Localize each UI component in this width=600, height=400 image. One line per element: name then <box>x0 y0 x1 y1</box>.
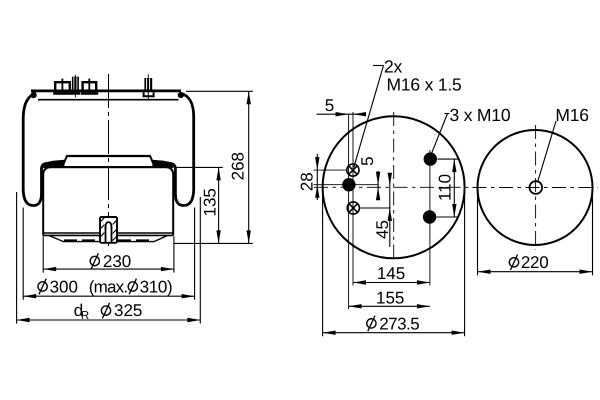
svg-text:145: 145 <box>377 264 405 283</box>
bolt D (right stud with nut) <box>144 75 154 100</box>
svg-text:45: 45 <box>373 220 392 239</box>
stud column line left <box>348 114 350 309</box>
dimension dR diameter 325 <box>17 192 201 324</box>
svg-text:M16: M16 <box>555 105 588 125</box>
dimension 5 (right of stud) <box>377 171 379 200</box>
boss hatch lines <box>101 218 117 241</box>
svg-text:310): 310) <box>140 277 173 296</box>
bellows hook wedge right <box>152 160 173 167</box>
svg-text:325: 325 <box>114 301 142 320</box>
dimension 110 <box>437 159 459 217</box>
bellows outline left <box>23 93 47 205</box>
dimension 155 <box>349 305 430 307</box>
svg-text:28: 28 <box>298 172 317 191</box>
dimension 145 <box>353 282 430 284</box>
svg-text:155: 155 <box>376 288 404 307</box>
boss bore arch <box>106 222 112 229</box>
piston bottom face line <box>43 232 173 234</box>
label M16 <box>538 121 556 181</box>
dimension 45 <box>389 176 391 247</box>
piston bottom dish <box>49 235 168 241</box>
svg-text:273.5: 273.5 <box>379 314 419 333</box>
bolt C (right nut) <box>81 79 99 94</box>
dimension 5 (top) <box>317 113 367 115</box>
stud M10 upper right (filled) <box>424 152 437 165</box>
svg-text:268: 268 <box>228 152 247 180</box>
bellows outline right <box>169 93 193 205</box>
label 3 x M10 <box>431 114 450 155</box>
centerline vertical of side view <box>108 74 110 250</box>
svg-text:5: 5 <box>325 96 334 115</box>
stud column line right <box>429 150 431 286</box>
top plate <box>31 90 181 93</box>
air fitting M16 lower (crossed circle) <box>347 202 359 214</box>
dimension diameter 273.5 <box>323 189 465 336</box>
dimension diameter 300 (max 310) <box>23 208 194 300</box>
bolt B (center stud) <box>71 75 80 98</box>
dimension 268 <box>174 91 253 243</box>
piston body <box>43 167 173 235</box>
dimension diameter 230 <box>43 236 174 272</box>
top view vertical centerline <box>393 112 395 262</box>
lower hole row line <box>360 207 391 209</box>
hole row line <box>314 169 348 171</box>
svg-text:(max.: (max. <box>89 277 128 296</box>
svg-text:135: 135 <box>201 188 220 216</box>
bottom view outer circle <box>478 130 593 245</box>
dimension 28 <box>316 154 318 200</box>
bolt A (left nut) <box>53 79 72 94</box>
piston top plate trapezoid <box>62 156 155 167</box>
stud row line <box>314 184 343 186</box>
air fitting column line <box>352 112 354 286</box>
piston center boss <box>100 217 117 243</box>
svg-text:3 x M10: 3 x M10 <box>450 105 511 125</box>
svg-text:220: 220 <box>521 253 548 272</box>
svg-text:R: R <box>81 310 89 322</box>
label 2x M16 x 1.5 <box>354 66 384 168</box>
air fitting M16 upper (crossed circle) <box>347 164 359 176</box>
stud row line right of stud <box>356 184 379 186</box>
dimension 135 <box>174 167 223 243</box>
top plate crimped edge right <box>178 92 184 98</box>
boss bore wall right <box>111 226 113 242</box>
dimension diameter 220 <box>478 190 593 276</box>
center hole M16 <box>530 181 543 194</box>
top view horizontal centerline <box>314 186 474 188</box>
svg-text:M16 x 1.5: M16 x 1.5 <box>387 74 462 94</box>
top plate crimped edge left <box>30 92 36 98</box>
piston bottom edge <box>43 234 173 236</box>
bottom view horizontal centerline <box>473 187 598 189</box>
bellows top bead line under plate <box>38 99 179 101</box>
piston bottom dark band <box>64 239 153 241</box>
svg-text:5: 5 <box>358 156 377 165</box>
stud M10 lower right (filled) <box>423 210 436 223</box>
bellows hook wedge left <box>44 160 65 167</box>
stud M10 left (filled) <box>342 178 355 191</box>
svg-text:230: 230 <box>103 252 131 271</box>
piston top line <box>43 166 173 168</box>
svg-text:2x: 2x <box>384 56 403 76</box>
svg-text:110: 110 <box>436 174 455 201</box>
svg-text:300: 300 <box>50 277 78 296</box>
top view outer circle <box>323 116 465 258</box>
bottom view vertical centerline <box>535 125 537 250</box>
boss bore wall left <box>105 226 107 242</box>
